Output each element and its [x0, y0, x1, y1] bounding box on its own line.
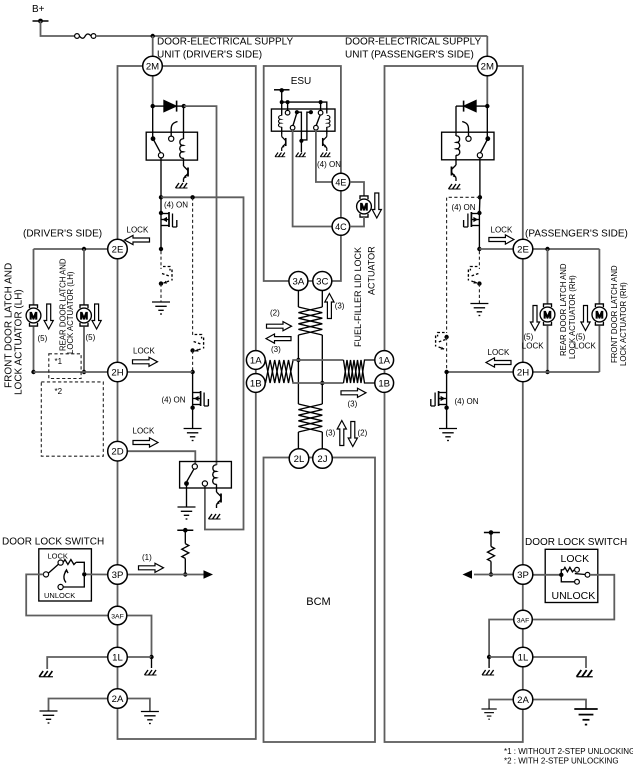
motor M1 front door latch — [26, 305, 41, 326]
wire right pair mid — [321, 335, 323, 404]
ESU coil1 — [281, 102, 283, 115]
arrow (3) up lower — [337, 421, 346, 446]
svg-text:3P: 3P — [112, 570, 124, 581]
switch UNLOCK contact passenger — [561, 575, 574, 582]
arrow (1) right — [139, 563, 164, 572]
arrow (3) up — [325, 294, 334, 319]
wire left pair mid — [297, 335, 299, 404]
svg-text:LOCK ACTUATOR (LH): LOCK ACTUATOR (LH) — [66, 271, 75, 354]
connector 1B driver — [246, 374, 265, 393]
node relay output / feed line — [159, 195, 163, 199]
wire swA pivot to common — [297, 112, 302, 141]
node dashed branch — [190, 195, 194, 199]
MOSFET Q9 (mirrored) — [431, 391, 447, 408]
wire common to 3AF — [26, 574, 108, 615]
svg-text:LOCK: LOCK — [127, 225, 149, 234]
svg-text:(4) ON: (4) ON — [452, 203, 476, 212]
wire down to rear motor M3 — [547, 249, 549, 304]
arrow down beside M3 — [530, 306, 539, 331]
svg-text:(4) ON: (4) ON — [164, 201, 188, 210]
switch armature — [48, 564, 58, 573]
arrow (3) right lower — [341, 388, 366, 397]
wire K3 output down — [479, 158, 481, 197]
wire 3AF right and down — [127, 616, 152, 658]
svg-text:DOOR LOCK SWITCH: DOOR LOCK SWITCH — [525, 537, 627, 548]
wire node down to MOSFET Q9 — [446, 372, 448, 391]
ESU switch B feed wire — [320, 102, 322, 110]
svg-text:(4) ON: (4) ON — [162, 396, 186, 405]
arrow LOCK right at 2E passenger — [489, 235, 514, 244]
wire 1L left — [47, 657, 108, 669]
node K3 output — [478, 195, 482, 199]
arrow (2) down lower — [348, 422, 357, 447]
wire node down to MOSFET Q3 — [192, 372, 194, 391]
wire Q9 to ground — [446, 408, 448, 429]
wire M4 to 2H wire — [598, 326, 600, 373]
connector 2A driver — [108, 689, 128, 709]
arrow LOCK right at 2D — [133, 438, 158, 447]
svg-text:2L: 2L — [294, 454, 305, 465]
node Q9 source — [444, 406, 448, 410]
svg-text:(5): (5) — [576, 333, 586, 342]
node switch input passenger — [559, 573, 563, 577]
earth ground left of 2A passenger — [481, 709, 496, 719]
arrow LOCK left at 2E — [125, 235, 150, 244]
ground (hatched) ESU middle — [296, 153, 306, 157]
svg-text:(PASSENGER'S SIDE): (PASSENGER'S SIDE) — [525, 229, 628, 240]
switch common contact passenger — [585, 572, 590, 577]
node 2H wire — [190, 370, 194, 374]
wire 2M branch into relay common — [152, 106, 154, 137]
BCM box — [264, 458, 376, 743]
svg-text:UNLOCK: UNLOCK — [552, 590, 596, 602]
svg-text:2M: 2M — [146, 62, 159, 73]
wire 2E node to circle — [479, 248, 513, 250]
twisted pair left horizontal — [266, 360, 294, 383]
wire node to MOSFET Q2 — [160, 197, 162, 213]
svg-text:3P: 3P — [517, 570, 529, 581]
svg-text:2E: 2E — [112, 245, 124, 256]
wire 2M branch into relay common — [486, 106, 488, 137]
dashed wire mid branch down to 2H — [192, 197, 194, 336]
dashed wire to 2H node — [192, 351, 194, 373]
ESU coil2 — [327, 115, 330, 127]
relay K1 box — [146, 132, 197, 160]
svg-text:2M: 2M — [481, 62, 494, 73]
wire node to Q8 — [478, 197, 481, 213]
wire Q8 source to 2E node — [478, 229, 480, 249]
svg-text:1B: 1B — [250, 379, 262, 390]
connector 1A driver — [246, 351, 265, 370]
connector 2M driver — [143, 56, 163, 76]
svg-text:ACTUATOR: ACTUATOR — [367, 246, 377, 295]
svg-text:4C: 4C — [335, 222, 347, 232]
node ESU common — [299, 139, 303, 143]
ground (hatched) right of 1L passenger — [577, 670, 593, 677]
svg-text:2A: 2A — [517, 695, 529, 706]
door lock switch box — [39, 549, 92, 601]
node diode cathode side — [485, 104, 489, 108]
connector 4C — [332, 218, 350, 236]
wire 3A down — [297, 291, 299, 308]
svg-text:(2): (2) — [270, 309, 280, 318]
svg-text:3AF: 3AF — [517, 617, 529, 624]
relay K2 armature — [187, 469, 194, 482]
wire feed line to 2D relay return — [161, 197, 244, 529]
connector 2H driver — [108, 362, 128, 382]
wire row1 mid — [292, 359, 343, 361]
wire 2E to motors — [34, 248, 108, 250]
svg-text:3AF: 3AF — [111, 613, 123, 620]
resistor R3 — [488, 547, 495, 562]
dashed transistor (option) under 2E — [162, 267, 172, 284]
B+ terminal — [33, 20, 49, 22]
relay K2 second contact — [202, 481, 207, 486]
svg-text:LOCK: LOCK — [561, 553, 590, 565]
svg-text:2E: 2E — [517, 245, 529, 256]
dashed box *2 — [41, 382, 103, 456]
ESU switch A feed wire — [287, 102, 289, 110]
passenger supply unit box — [385, 66, 523, 742]
ESU switch A bottom contact — [290, 125, 295, 130]
twisted pair right horizontal — [344, 360, 375, 383]
ESU supply terminal — [274, 89, 290, 91]
dashed transistor (option) mid — [194, 335, 204, 352]
dashed wire from 2E node down — [160, 251, 162, 269]
wire 3C down — [321, 291, 323, 308]
node 2E wire — [159, 247, 163, 251]
svg-text:UNIT (PASSENGER'S SIDE): UNIT (PASSENGER'S SIDE) — [345, 50, 474, 61]
node 3P wire passenger — [489, 572, 493, 576]
connector 3P driver — [108, 565, 128, 585]
earth ground under dashed transistor passenger — [470, 304, 488, 316]
wire 1L passenger right — [533, 657, 586, 668]
svg-text:1A: 1A — [250, 356, 262, 367]
transistor Q1 — [183, 158, 185, 163]
svg-text:LOCK: LOCK — [488, 348, 510, 357]
relay K1 actuator link — [171, 122, 177, 137]
wire terminal to bus — [281, 90, 283, 102]
dashed wire continue to 2H node — [446, 337, 448, 372]
ground (hatched) under Q6 — [320, 153, 330, 157]
arrow (3) left — [266, 334, 291, 343]
transistor Q6 — [326, 127, 328, 134]
wire 2A right — [127, 699, 150, 712]
earth ground left of 2A — [40, 711, 58, 723]
transistor Q5 — [281, 127, 283, 134]
ESU switch A armature — [293, 114, 297, 126]
connector 3AF driver — [108, 606, 127, 625]
relay K1 actuator contact — [169, 136, 174, 141]
wire 2A passenger right — [533, 700, 586, 710]
node dashed transistor — [159, 281, 163, 285]
ESU switch A pivot — [295, 110, 299, 114]
ESU switch B armature — [316, 115, 320, 126]
wire 4E to fuel motor — [350, 182, 364, 196]
wire 2A left — [49, 699, 109, 712]
wire 2H to dashed node — [447, 371, 514, 373]
wire common to 3AF passenger — [532, 575, 614, 620]
transistor Q4 — [216, 484, 218, 489]
wire output to 3P — [87, 573, 108, 575]
svg-text:1L: 1L — [518, 653, 529, 664]
svg-text:*2: *2 — [55, 387, 63, 396]
svg-text:UNLOCK: UNLOCK — [44, 591, 75, 600]
ESU switch A top contact — [285, 110, 290, 115]
wire to 2J — [321, 432, 323, 449]
wire swA bottom contact to 4C — [293, 130, 333, 227]
node diode cathode — [182, 104, 186, 108]
fuse (circuit breaker) — [75, 34, 96, 39]
relay K3 actuator contact — [466, 136, 471, 141]
svg-text:DOOR LOCK SWITCH: DOOR LOCK SWITCH — [2, 537, 104, 548]
wire B+ down to bus — [41, 21, 75, 36]
svg-text:2A: 2A — [112, 694, 124, 705]
svg-text:LOCK: LOCK — [491, 225, 513, 234]
dashed wire to ground — [478, 284, 480, 304]
wire 3P to switch — [533, 574, 562, 576]
wire down to front motor M4 — [598, 249, 600, 304]
earth ground under K2 — [178, 507, 196, 519]
ESU switch B top contact — [318, 110, 323, 115]
ESU relay box — [271, 109, 335, 131]
ground (hatched) left of 1L — [39, 671, 53, 677]
node MOSFET Q2 drain — [159, 211, 163, 215]
wire row2 mid — [292, 382, 343, 384]
wire junction down to 2M driver — [152, 36, 154, 58]
node front motor branch — [82, 247, 86, 251]
motor M3 rear door latch RH — [540, 304, 555, 325]
svg-text:(3): (3) — [335, 301, 345, 310]
resistor R4 lock branch — [561, 570, 563, 575]
connector 1L driver — [108, 647, 128, 667]
connector 2J — [313, 449, 333, 469]
node switch output — [82, 572, 86, 576]
node passenger mid dashed — [444, 335, 448, 339]
wire swB pivot to common — [301, 112, 311, 140]
switch UNLOCK contact — [58, 584, 63, 589]
svg-text:LOCK: LOCK — [574, 342, 596, 351]
MOSFET Q8 (mirrored) — [464, 212, 480, 229]
wire 2H passenger to motors — [533, 371, 600, 373]
arrow LOCK right at 2H — [133, 357, 158, 366]
wire terminal to resistor R1 — [184, 530, 186, 543]
node 1L right — [149, 655, 153, 659]
svg-text:1A: 1A — [378, 356, 390, 367]
twisted pair lower — [298, 404, 322, 432]
svg-text:*1 : WITHOUT 2-STEP UNLOCKING: *1 : WITHOUT 2-STEP UNLOCKING — [504, 747, 633, 756]
ground (hatched) under Q1 — [176, 183, 188, 188]
wire node to ground — [488, 657, 490, 668]
transistor Q7 — [455, 155, 457, 162]
connector 3A — [289, 272, 308, 291]
relay K2 coil — [213, 465, 217, 484]
wire M2 to 2H wire — [83, 327, 85, 373]
node 3P wire — [183, 572, 187, 576]
momentary arrow — [64, 571, 66, 583]
arrow down beside M1 — [44, 304, 53, 329]
connector 3P passenger — [513, 565, 533, 585]
svg-text:1B: 1B — [378, 379, 390, 390]
svg-text:(4) ON: (4) ON — [455, 397, 479, 406]
MOSFET Q2 — [161, 212, 177, 229]
diode D2 — [456, 101, 487, 112]
ESU switch B pivot — [309, 110, 313, 114]
arrow LOCK left at 2H passenger — [486, 358, 511, 367]
svg-text:ESU: ESU — [291, 76, 312, 87]
svg-text:DOOR-ELECTRICAL SUPPLY: DOOR-ELECTRICAL SUPPLY — [345, 37, 481, 48]
motor M4 front door latch RH — [592, 304, 607, 325]
arrow (2) right — [267, 322, 292, 331]
arrowhead continuation left — [463, 570, 473, 578]
switch common contact — [43, 572, 48, 577]
wire swB bottom contact to 4E — [316, 130, 332, 182]
node dashed transistor passenger — [477, 281, 481, 285]
connector 1L passenger — [513, 647, 533, 667]
arrow down beside M2 — [92, 304, 101, 329]
relay K3 coil — [456, 136, 460, 155]
wire bus down to 2M passenger — [486, 36, 488, 58]
wire 3P passenger left — [474, 574, 513, 576]
svg-text:2J: 2J — [317, 454, 327, 465]
wire diode to coil — [455, 106, 457, 136]
svg-text:*2 : WITH 2-STEP UNLOCKING: *2 : WITH 2-STEP UNLOCKING — [504, 757, 619, 764]
wire 3AF passenger left and down — [489, 620, 514, 658]
wire down to front door motor M1 — [33, 249, 35, 305]
svg-text:1L: 1L — [112, 653, 123, 664]
twisted pair upper — [298, 307, 322, 335]
connector 2A passenger — [513, 690, 533, 710]
connector 2L — [289, 449, 309, 469]
node bus/2M junction — [151, 34, 155, 38]
connector 2M passenger — [478, 56, 498, 76]
relay K3 actuator link — [462, 122, 468, 137]
dashed transistor (option) passenger mid — [436, 333, 446, 350]
connector 4E — [332, 173, 350, 191]
earth ground under Q9 — [439, 429, 457, 441]
earth ground under Q3 — [184, 429, 202, 441]
earth ground right of 2A — [141, 712, 159, 724]
wire 2D to relay K2 — [127, 451, 195, 464]
wire unlock contact to node — [63, 574, 84, 587]
connector 3C — [313, 272, 332, 291]
wire 2H to node — [127, 371, 192, 373]
relay K1 output contact — [158, 153, 163, 158]
node rear motor branch passenger — [545, 247, 549, 251]
connector 2E passenger — [513, 239, 533, 259]
wire fuel motor to 4C — [350, 217, 364, 227]
svg-text:(5): (5) — [524, 333, 534, 342]
svg-text:UNIT (DRIVER'S SIDE): UNIT (DRIVER'S SIDE) — [157, 50, 262, 61]
node M2 join — [82, 370, 86, 374]
wire 1L passenger left — [489, 656, 513, 658]
dashed wire from 2E node down — [478, 251, 480, 269]
dashed wire to ground — [160, 284, 162, 302]
wire Q3 to ground — [192, 408, 194, 429]
switch LOCK contact passenger — [575, 567, 580, 572]
ground (hatched) under Q7 — [449, 184, 461, 189]
node mid dashed — [190, 348, 194, 352]
relay K3 armature — [480, 139, 488, 153]
dashed wire left then down to 2H — [447, 197, 480, 333]
svg-text:LOCK ACTUATOR (RH): LOCK ACTUATOR (RH) — [568, 275, 577, 359]
node M1 join — [31, 370, 35, 374]
wire common to ground — [300, 141, 302, 152]
svg-text:FRONT DOOR LATCH AND: FRONT DOOR LATCH AND — [610, 265, 619, 363]
svg-text:REAR DOOR LATCH AND: REAR DOOR LATCH AND — [559, 263, 568, 356]
svg-text:*1: *1 — [55, 357, 63, 366]
node swA feed — [286, 100, 290, 104]
node row1 left vertical — [296, 358, 300, 362]
resistor R2 in lock contact — [63, 560, 76, 565]
resistor R1 — [182, 544, 189, 559]
wire to 2L — [297, 432, 299, 449]
svg-text:(5): (5) — [86, 333, 96, 342]
arrow down beside M4 — [581, 306, 590, 331]
node 2H passenger — [444, 370, 448, 374]
svg-text:LOCK ACTUATOR (LH): LOCK ACTUATOR (LH) — [14, 289, 25, 395]
node MOSFET Q8 drain — [477, 211, 481, 215]
wire Q2 source to 2E node — [160, 229, 162, 249]
relay K3 box — [442, 132, 494, 160]
relay K2 box — [180, 462, 232, 489]
wire 3P to BCM side — [127, 574, 204, 576]
door lock switch box passenger — [545, 549, 598, 602]
svg-text:(1): (1) — [142, 553, 152, 562]
svg-text:(DRIVER'S SIDE): (DRIVER'S SIDE) — [23, 229, 102, 240]
connector 2E driver — [108, 239, 128, 259]
wire 2M down to diode node — [486, 76, 488, 106]
ground (hatched) under Q5 — [275, 153, 285, 157]
connector 2D driver — [108, 441, 128, 461]
wire M3 to 2H wire — [547, 326, 549, 373]
connector 2H passenger — [513, 362, 533, 382]
ground (hatched) under Q4 — [209, 514, 221, 519]
wire down to rear door motor M2 — [83, 249, 85, 305]
driver supply unit box — [118, 66, 256, 739]
wire 2H to motors — [34, 371, 108, 373]
wire resistor to 3P wire — [184, 558, 186, 574]
svg-text:3C: 3C — [316, 277, 328, 288]
relay K2 input contact — [192, 464, 197, 469]
wire K2 common to ground — [186, 484, 188, 508]
pull-up terminal at 3P — [177, 529, 193, 531]
relay K1 armature — [153, 139, 161, 153]
arrow down beside fuel motor — [372, 193, 381, 218]
svg-text:4E: 4E — [335, 177, 346, 187]
wire bus to driver 2M junction — [96, 35, 487, 37]
svg-text:(4) ON: (4) ON — [317, 160, 341, 169]
svg-text:2H: 2H — [111, 368, 123, 379]
svg-text:LOCK: LOCK — [522, 342, 544, 351]
svg-text:(3): (3) — [348, 400, 358, 409]
svg-text:LOCK: LOCK — [133, 427, 155, 436]
wire resistor to 3P wire — [490, 561, 492, 574]
svg-text:3A: 3A — [293, 277, 305, 288]
dashed box *1 — [49, 354, 81, 379]
svg-text:2H: 2H — [517, 368, 529, 379]
svg-text:(5): (5) — [38, 334, 48, 343]
relay K1 coil — [183, 108, 185, 139]
ground (hatched) right of 1L — [145, 670, 157, 675]
node 2E wire passenger — [477, 247, 481, 251]
svg-text:2D: 2D — [111, 447, 123, 458]
svg-text:DOOR-ELECTRICAL SUPPLY: DOOR-ELECTRICAL SUPPLY — [157, 37, 293, 48]
wire 2E passenger to motors — [533, 248, 600, 250]
node 1L passenger left — [487, 655, 491, 659]
wire terminal to resistor R3 — [490, 533, 492, 547]
connector 1A passenger — [375, 351, 394, 370]
